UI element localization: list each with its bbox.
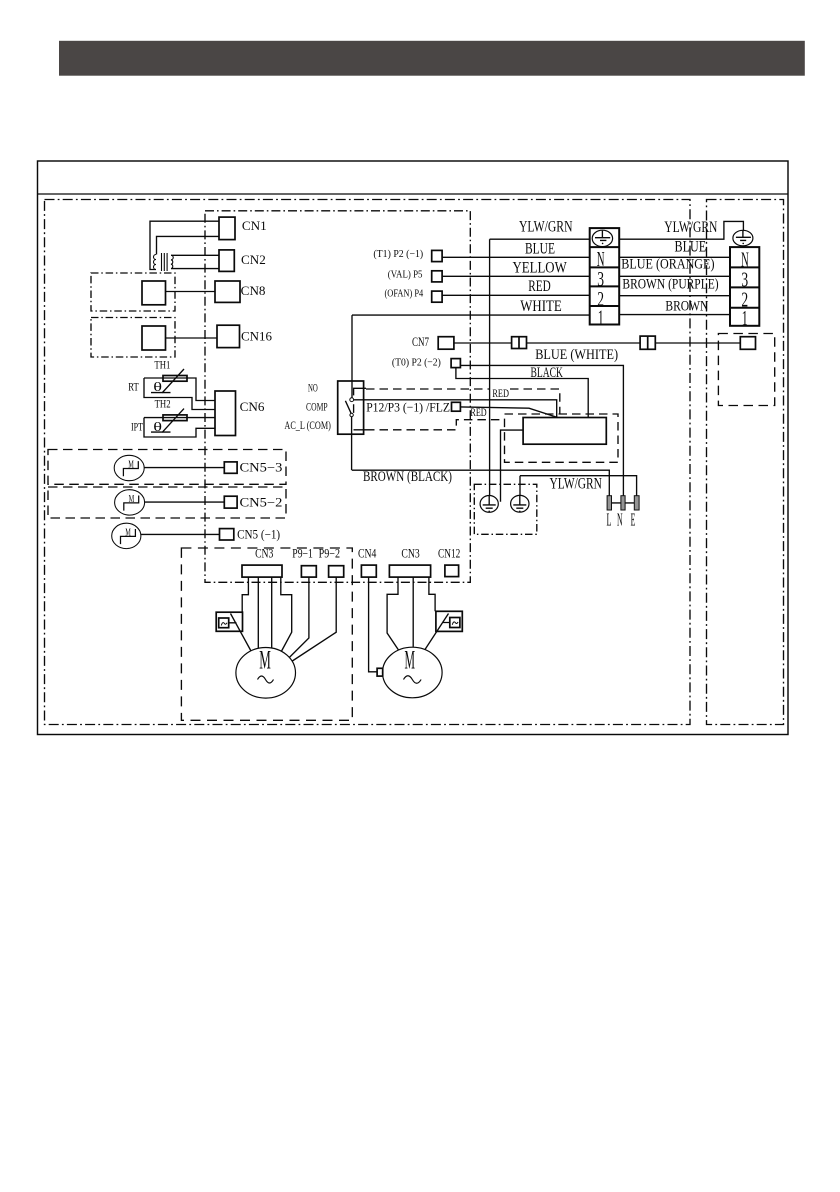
svg-text:IPT: IPT: [131, 419, 143, 433]
svg-text:RED: RED: [528, 278, 551, 295]
svg-text:CN2: CN2: [241, 253, 266, 267]
svg-text:RED: RED: [492, 388, 509, 400]
svg-text:CN4: CN4: [358, 547, 377, 561]
svg-text:WHITE: WHITE: [520, 298, 561, 315]
svg-text:NO: NO: [308, 381, 318, 395]
svg-text:(T1) P2 (−1): (T1) P2 (−1): [373, 248, 423, 260]
svg-text:CN5 (−1): CN5 (−1): [237, 528, 280, 542]
svg-text:1: 1: [598, 306, 604, 330]
svg-text:YLW/GRN: YLW/GRN: [550, 476, 602, 493]
svg-text:CN3: CN3: [401, 547, 419, 561]
svg-text:P12/P3 (−1) /FLZ: P12/P3 (−1) /FLZ: [366, 400, 450, 415]
svg-text:P9−2: P9−2: [319, 547, 340, 561]
svg-text:BLUE (WHITE): BLUE (WHITE): [535, 347, 618, 363]
svg-text:BROWN: BROWN: [665, 299, 708, 315]
svg-text:θ: θ: [153, 419, 162, 434]
svg-text:CN1: CN1: [242, 219, 267, 233]
svg-text:BLUE: BLUE: [675, 238, 707, 255]
svg-text:M: M: [129, 493, 135, 505]
svg-text:CN7: CN7: [412, 335, 429, 349]
svg-text:P9−1: P9−1: [292, 547, 313, 561]
svg-text:AC_L (COM): AC_L (COM): [284, 418, 331, 432]
svg-text:(VAL) P5: (VAL) P5: [388, 268, 423, 280]
svg-text:CN16: CN16: [241, 329, 272, 343]
svg-text:BROWN (PURPLE): BROWN (PURPLE): [622, 277, 718, 293]
svg-text:CN3: CN3: [255, 547, 273, 561]
svg-text:M: M: [125, 527, 131, 539]
svg-text:CN6: CN6: [240, 400, 265, 414]
svg-text:(T0) P2 (−2): (T0) P2 (−2): [392, 357, 441, 369]
svg-text:θ: θ: [153, 379, 162, 394]
svg-text:BROWN (BLACK): BROWN (BLACK): [363, 469, 452, 485]
svg-text:M: M: [128, 459, 134, 471]
svg-text:E: E: [631, 509, 636, 529]
svg-text:BLUE: BLUE: [525, 241, 555, 258]
svg-text:CN5−2: CN5−2: [240, 495, 283, 509]
svg-text:BLACK: BLACK: [531, 365, 564, 381]
svg-text:1: 1: [742, 306, 748, 330]
svg-text:RT: RT: [128, 380, 139, 394]
svg-text:N: N: [617, 509, 623, 529]
svg-text:YLW/GRN: YLW/GRN: [519, 219, 573, 236]
svg-text:M: M: [405, 645, 416, 674]
svg-text:CN12: CN12: [438, 547, 460, 561]
svg-text:TH1: TH1: [154, 359, 170, 371]
svg-text:CN5−3: CN5−3: [240, 461, 283, 475]
svg-text:BLUE (ORANGE): BLUE (ORANGE): [621, 256, 714, 272]
svg-text:YLW/GRN: YLW/GRN: [664, 219, 717, 236]
svg-text:TH2: TH2: [155, 398, 171, 410]
svg-text:COMP: COMP: [306, 399, 328, 413]
svg-text:M: M: [259, 646, 271, 675]
svg-text:YELLOW: YELLOW: [513, 260, 568, 277]
svg-text:RED: RED: [470, 407, 486, 419]
svg-text:L: L: [607, 509, 612, 529]
svg-text:(OFAN) P4: (OFAN) P4: [385, 288, 424, 300]
svg-text:CN8: CN8: [241, 284, 266, 298]
